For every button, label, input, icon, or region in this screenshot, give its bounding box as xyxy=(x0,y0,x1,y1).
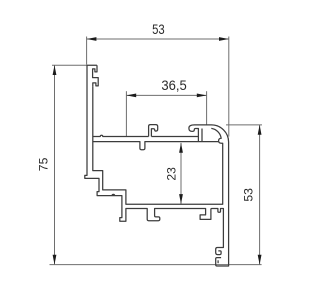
dimension 36,5: dimension line xyxy=(126,94,206,96)
dimension 36,5: right arrowhead xyxy=(197,94,207,98)
svg-text:75: 75 xyxy=(36,157,50,171)
hook H1 on upper channel xyxy=(149,125,158,137)
profile outer contour: top edge, left wall, stepped feet, bottom channel with screw pocket P1 and gasket hook P2, lower member inner face, snap hook C1 xyxy=(85,65,224,254)
svg-text:53: 53 xyxy=(152,21,165,37)
dimension 36,5: left arrowhead xyxy=(126,94,136,98)
dimension 53 right: bottom arrowhead xyxy=(258,255,262,265)
upper channel top face left segment with small rib at x=101.5 xyxy=(93,135,149,136)
inner arc of rounded corner, small notch, glazing rebate inner face, bottom channel top face, inner stepped contour back to left wall xyxy=(93,86,223,204)
snap hook C2, member bottom edge, outer face, rounded top corner, glazing hook H2 with left lip and stem xyxy=(189,125,229,266)
svg-text:23: 23 xyxy=(166,167,178,180)
dimension 23 inner: top arrowhead xyxy=(179,143,183,153)
dimension 53 top: left arrowhead xyxy=(87,37,97,41)
small rib on shelf2 bottom face xyxy=(112,194,115,195)
dimension 75 left: dimension line xyxy=(54,65,56,264)
dimension 53 top: extension line left xyxy=(86,37,88,65)
svg-text:36,5: 36,5 xyxy=(161,77,187,93)
dimension 53 right: top arrowhead xyxy=(258,125,262,135)
dimension 23 inner: dimension line xyxy=(180,143,182,204)
dimension 53 right: dimension line xyxy=(259,125,261,265)
dimension 36,5: extension line right xyxy=(206,91,208,124)
dimension 23 inner: bottom arrowhead xyxy=(179,194,183,204)
upper channel top face segment between hooks xyxy=(151,136,198,138)
dimension 75 left: top arrowhead xyxy=(53,65,57,75)
svg-text:53: 53 xyxy=(242,188,256,202)
dimension 75 left: extension line top xyxy=(52,64,87,66)
small tick inside hook C2 xyxy=(217,260,219,263)
dimension 53 top: dimension line xyxy=(87,38,229,40)
dimension 53 right: extension line top xyxy=(226,124,262,126)
dimension 53 top: extension line right xyxy=(228,37,230,137)
dimension 53 top: right arrowhead xyxy=(219,37,229,41)
dimension 75 left: bottom arrowhead xyxy=(53,255,57,265)
F-shaped double snap hook at top of left wall xyxy=(93,65,99,86)
hook H2 stem right face xyxy=(201,129,203,142)
upper channel bottom face with screw pocket at x=140-145 xyxy=(93,142,219,150)
dimension 36,5: extension line left xyxy=(125,91,127,136)
shared bottom extension line xyxy=(50,264,262,266)
